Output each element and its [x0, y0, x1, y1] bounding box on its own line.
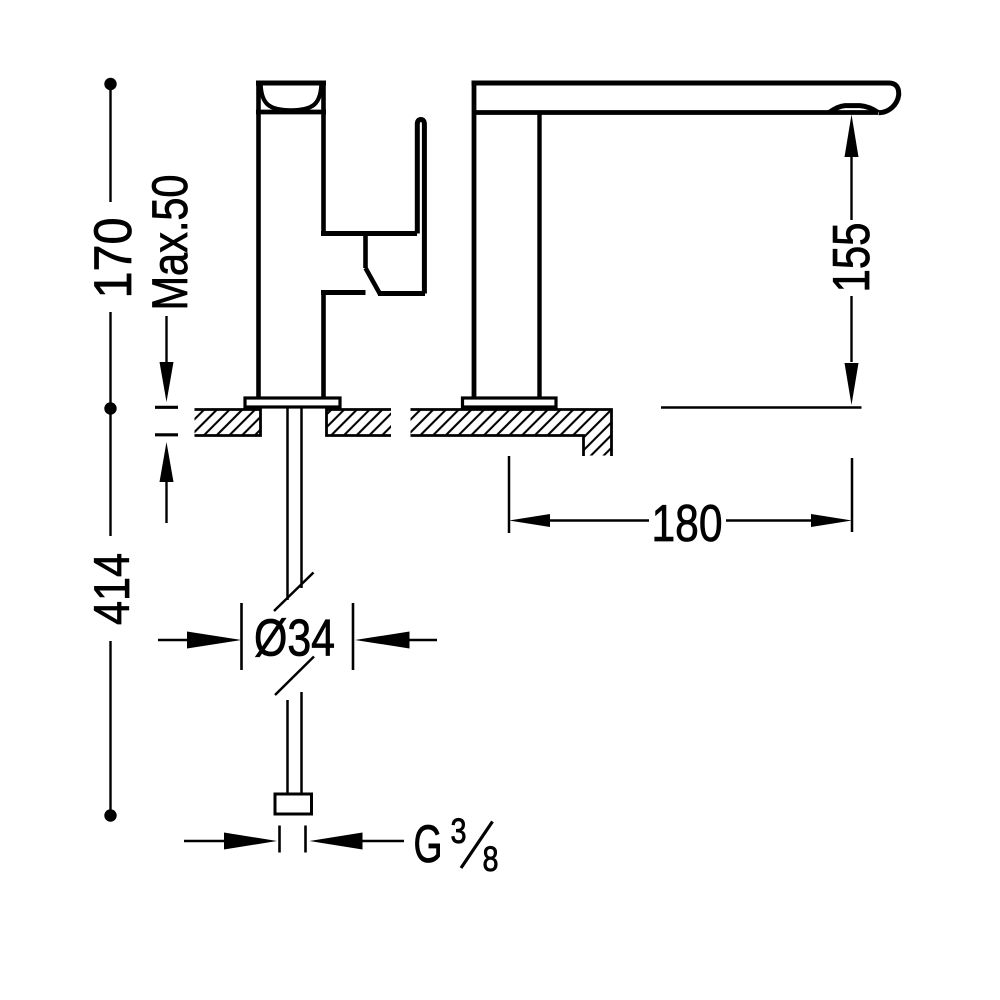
- cartridge neck diagonal: [366, 268, 381, 294]
- dimension 170: line with dots: [104, 78, 116, 415]
- lever handle bar: [417, 120, 424, 294]
- dimension 155: [661, 115, 862, 408]
- svg-text:G: G: [414, 815, 443, 874]
- faucet right view: column + spout: [472, 83, 899, 398]
- label G 3/8: [414, 812, 499, 879]
- cartridge step: top horizontal: [321, 231, 417, 236]
- dimension Ø34: [158, 603, 437, 670]
- svg-text:414: 414: [84, 553, 140, 625]
- svg-text:8: 8: [483, 840, 499, 879]
- svg-text:3: 3: [451, 812, 467, 851]
- G3/8 connector block: [275, 794, 312, 814]
- mounting flange right view: [463, 398, 557, 407]
- pipe break slash lower: [275, 657, 314, 696]
- counter-top hatched section left view, left block: [195, 410, 261, 436]
- supply pipe under left view: [288, 408, 302, 795]
- svg-text:Max.50: Max.50: [142, 175, 198, 311]
- spout outlet bump: [829, 106, 878, 113]
- svg-text:180: 180: [652, 495, 723, 553]
- cartridge step: lower-left horizontal: [321, 290, 366, 295]
- dimension 180: [509, 456, 852, 533]
- faucet body left view: column outline: [256, 83, 326, 398]
- pipe break slash upper: [274, 573, 314, 612]
- lever bottom horizontal: [378, 291, 425, 296]
- svg-text:170: 170: [84, 218, 143, 299]
- counter-top hatched section right view (L-shaped): [411, 410, 612, 457]
- dimension Max.50: extension ticks: [155, 406, 178, 409]
- bowl arc in top cap: [261, 86, 322, 111]
- mounting flange left view: [245, 398, 340, 407]
- svg-text:Ø34: Ø34: [254, 610, 335, 668]
- dimension 414: line with dots: [104, 409, 116, 822]
- dimension Max.50: upper arrow: [160, 316, 174, 402]
- dimension Max.50: lower arrow: [160, 442, 174, 523]
- counter-top hatched section left view, right block: [327, 410, 392, 436]
- dimension G3/8: [184, 826, 404, 853]
- cartridge neck vertical: [363, 234, 368, 269]
- svg-text:155: 155: [823, 223, 881, 293]
